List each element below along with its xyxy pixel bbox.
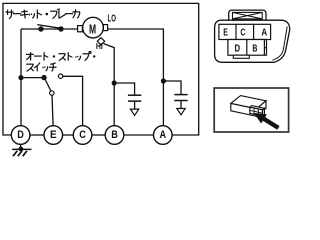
svg-text:A: A [261,28,267,39]
svg-text:A: A [160,129,167,141]
svg-text:C: C [79,129,86,141]
svg-text:C: C [240,28,245,39]
svg-text:E: E [50,129,57,141]
svg-text:D: D [235,43,241,54]
svg-text:LO: LO [108,13,117,24]
svg-text:B: B [111,129,118,141]
svg-text:M: M [89,23,96,37]
svg-text:B: B [252,43,257,54]
svg-text:HI: HI [96,41,103,51]
svg-text:E: E [223,28,228,39]
svg-text:D: D [17,129,24,141]
